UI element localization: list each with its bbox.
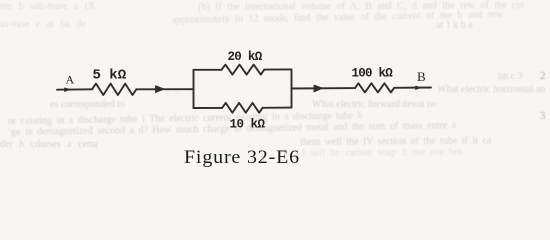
faint bleed-through mid line [115,86,195,97]
svg-text:100 kΩ: 100 kΩ [352,67,394,81]
faint item number 3 [540,110,546,122]
faint bleed-through text section of tube line right part [300,135,492,148]
wire from R1 to parallel box [136,88,193,90]
top branch wire right [264,68,291,70]
faint bleed-through text top-right line 2 [172,9,503,26]
svg-text:10 kΩ: 10 kΩ [230,118,266,132]
label 100 kΩ [352,67,394,81]
wire from box to R4 [292,87,356,89]
resistor R2 20 kΩ zigzag [222,65,265,75]
faint bleed-through text top-right line 1 [198,0,525,13]
svg-text:B: B [417,69,426,84]
wire from A to R1 [57,88,92,90]
faint bleed-through text right "What electric" [437,84,546,95]
faint item number 2 [540,70,546,82]
resistor R1 5 kΩ zigzag [92,84,136,95]
faint bleed-through text mid-right line [312,99,436,110]
bottom branch wire left [194,107,223,109]
small arrowhead near node B [416,86,422,90]
resistor R4 100 kΩ zigzag [355,83,394,92]
label 20 kΩ [228,50,263,64]
faint bleed-through text how much charge line [11,120,456,138]
small arrowhead near node A [65,88,71,92]
svg-text:5 kΩ: 5 kΩ [93,68,127,84]
wire from R4 to node B [394,87,431,89]
faint bleed-through text right item 2 [498,71,522,82]
node B label [417,69,426,84]
faint bleed-through text section of tube line [0,139,98,150]
current arrow on right wire [314,85,323,92]
top branch wire left [194,69,222,71]
label 5 kΩ [93,68,127,84]
faint bleed-through text bottom-right [302,147,463,159]
faint bleed-through text discharge tube line [8,110,363,127]
svg-text:20 kΩ: 20 kΩ [228,50,263,64]
faint bleed-through text top-right line 3 [436,20,473,31]
svg-text:A: A [66,73,75,87]
bottom branch wire right [263,107,292,109]
label 10 kΩ [230,118,266,132]
faint bleed-through text top-left line 2 [0,19,86,30]
caption Figure 32-E6 [184,147,300,169]
resistor R3 10 kΩ zigzag [222,103,263,113]
node A label [66,73,75,87]
faint bleed-through text mid line "corresponded to" [50,99,125,110]
junction right vertical wire of parallel box [291,69,293,107]
junction left vertical wire of parallel box [193,70,195,108]
current arrow on left wire [156,86,165,93]
faint bleed-through text top-left line 1 [0,1,95,12]
